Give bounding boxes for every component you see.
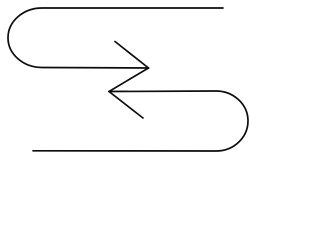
bottom arrow line with right U-turn — [33, 91, 248, 151]
top arrow line with left U-turn — [8, 8, 223, 68]
upper arrowhead barb of right-pointing arrow — [115, 42, 149, 69]
lower arrowhead barb of left-pointing arrow — [109, 92, 143, 119]
diagonal connecting the two arrow tips (lower barb of right arrow / upper barb of left arrow) — [109, 68, 149, 92]
